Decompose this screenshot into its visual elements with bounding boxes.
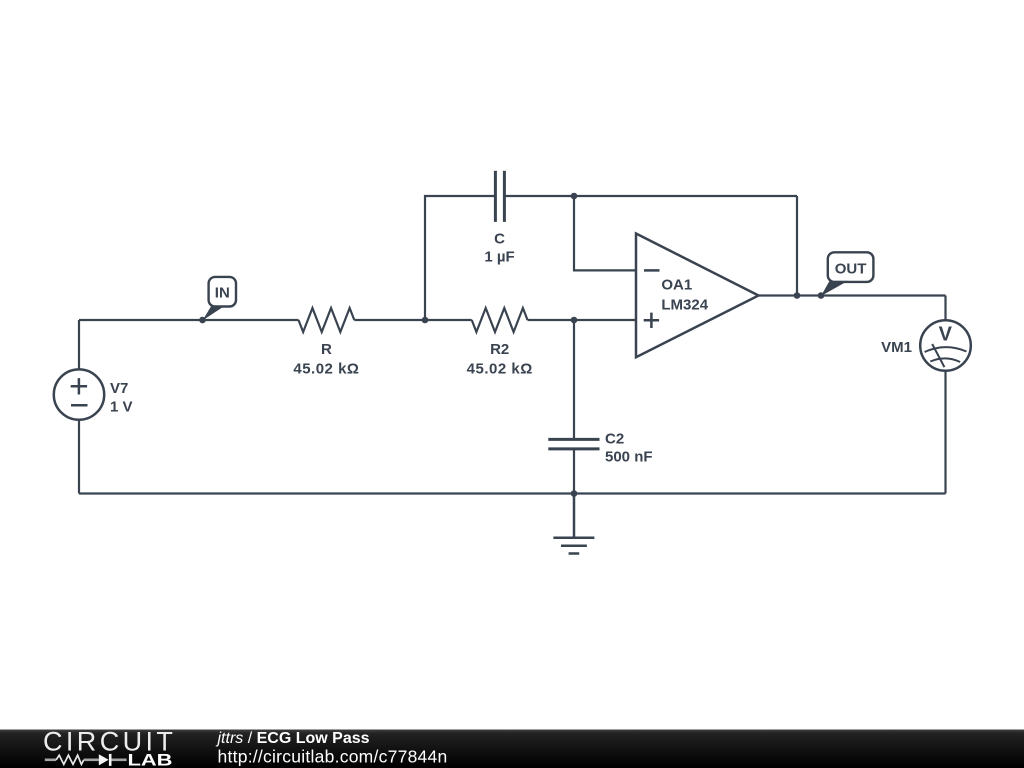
node dot R-R2-C junction <box>422 317 429 324</box>
voltmeter VM1 circle <box>920 320 971 371</box>
voltage source V7 circle <box>54 369 104 419</box>
wire junction up to C left <box>425 196 495 320</box>
wire VM1 bottom stem <box>944 371 946 494</box>
resistor R <box>299 308 355 332</box>
svg-text:45.02 kΩ: 45.02 kΩ <box>467 361 533 378</box>
capacitor C2 <box>548 439 599 449</box>
svg-text:LAB: LAB <box>128 750 173 768</box>
node dot R2-C2-plus junction <box>571 317 578 324</box>
op-amp plus pin symbol <box>644 313 659 328</box>
svg-text:LM324: LM324 <box>661 296 708 313</box>
svg-text:C: C <box>494 231 505 248</box>
V7 plus symbol <box>71 378 87 394</box>
svg-text:OA1: OA1 <box>661 277 692 294</box>
wire V7 top stem <box>78 320 80 369</box>
resistor R2 <box>472 308 528 332</box>
svg-text:VM1: VM1 <box>881 339 912 356</box>
wire bottom rail <box>79 492 946 494</box>
voltmeter VM1 scale arcs <box>925 347 967 352</box>
svg-text:1 µF: 1 µF <box>484 249 514 266</box>
flag IN box <box>209 277 236 307</box>
wire VM1 top stem <box>944 296 946 321</box>
svg-text:http://circuitlab.com/c77844n: http://circuitlab.com/c77844n <box>218 746 448 766</box>
svg-text:45.02 kΩ: 45.02 kΩ <box>293 361 359 378</box>
ground <box>553 494 594 554</box>
V7 minus symbol <box>71 404 88 407</box>
logo resistor-diode squiggle <box>45 754 127 766</box>
op-amp minus pin symbol <box>644 269 660 272</box>
flag OUT pointer <box>821 281 848 296</box>
wire V7 bottom stem <box>78 420 80 494</box>
wire feedback vertical <box>796 196 798 296</box>
wire main input horizontal <box>79 319 299 321</box>
svg-text:R2: R2 <box>490 341 509 358</box>
svg-text:1 V: 1 V <box>110 399 133 416</box>
wire R to R2 <box>354 319 471 321</box>
flag OUT box <box>828 252 874 282</box>
svg-text:jttrs / ECG Low Pass: jttrs / ECG Low Pass <box>216 730 370 747</box>
node dot OUT <box>818 292 825 299</box>
svg-text:R: R <box>321 341 332 358</box>
svg-text:V: V <box>939 324 953 346</box>
wire C2 to bottom rail <box>573 449 575 494</box>
svg-text:V7: V7 <box>110 380 128 397</box>
wire R2 to op-amp plus input <box>528 319 636 321</box>
wire node down to C2 <box>573 320 575 439</box>
logo diode triangle <box>99 754 109 765</box>
wire node to op-amp minus input <box>574 196 636 270</box>
footer bar <box>0 730 1024 768</box>
node dot C right <box>571 193 578 200</box>
wire output horizontal <box>759 294 946 296</box>
node dot feedback-output <box>794 292 801 299</box>
capacitor C <box>495 171 504 222</box>
op-amp OA1 triangle <box>636 234 759 358</box>
wire C right to feedback corner <box>504 195 797 197</box>
node dot ground rail <box>571 490 578 497</box>
svg-text:C2: C2 <box>605 430 624 447</box>
flag IN pointer <box>203 306 226 321</box>
svg-text:500 nF: 500 nF <box>605 449 653 466</box>
node dot IN <box>199 317 206 324</box>
svg-text:OUT: OUT <box>835 261 867 278</box>
svg-text:IN: IN <box>215 284 230 301</box>
voltmeter VM1 needle <box>932 344 944 367</box>
